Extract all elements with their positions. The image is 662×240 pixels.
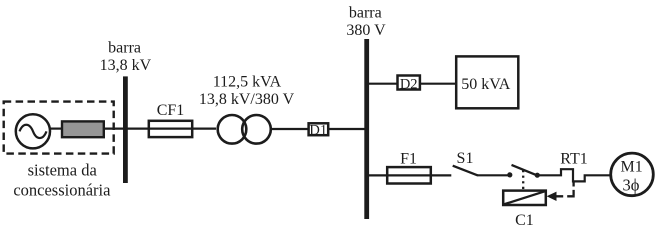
dashed trip link horizontal to arrow (556, 195, 575, 197)
svg-text:C1: C1 (515, 212, 534, 229)
svg-text:S1: S1 (457, 150, 474, 167)
wire: source circle to impedance (49, 128, 62, 130)
wire: bus 380V to D2 to 50kVA box (367, 83, 457, 85)
fuse F1 (387, 167, 431, 183)
junction node (left of contactor contact) (507, 172, 512, 177)
impedance rectangle (gray) (62, 121, 104, 137)
trip arrow head (points left into C1) (547, 192, 557, 201)
svg-text:barra: barra (349, 5, 382, 22)
motor M1 circle (611, 153, 654, 196)
AC source circle (16, 114, 50, 148)
wire: bus 13.8kV through fuse CF1 to transformer (126, 128, 216, 130)
svg-text:M1: M1 (620, 158, 642, 175)
svg-text:3ϕ: 3ϕ (623, 176, 640, 195)
svg-text:CF1: CF1 (157, 102, 185, 119)
coil diagonal (504, 191, 545, 204)
junction node (right of contactor contact) (535, 173, 540, 178)
svg-text:RT1: RT1 (560, 150, 587, 167)
sine wave (20, 125, 47, 138)
svg-text:concessionária: concessionária (13, 180, 111, 199)
svg-text:F1: F1 (400, 151, 417, 168)
svg-text:380 V: 380 V (346, 22, 386, 39)
svg-text:50 kVA: 50 kVA (461, 76, 510, 93)
svg-text:sistema da: sistema da (28, 161, 98, 180)
dashed trip link vertical from RT1 (572, 181, 574, 197)
switch S1 blade (453, 166, 478, 176)
transformer circle 1 (218, 115, 247, 144)
svg-text:D1: D1 (309, 122, 327, 138)
svg-text:barra: barra (108, 40, 141, 57)
svg-text:13,8 kV: 13,8 kV (100, 57, 152, 74)
wire: S1 to contactor contact (477, 174, 509, 176)
svg-text:112,5 kVA: 112,5 kVA (213, 74, 282, 91)
bus bar 380 V (364, 39, 369, 219)
contactor coil C1 box (503, 191, 546, 205)
dashed box: sistema da concessionária (4, 102, 114, 154)
load box 50 kVA (456, 56, 518, 108)
svg-text:D2: D2 (400, 76, 418, 92)
wire+thermal relay RT1 bump to motor (537, 169, 610, 181)
bus bar 13.8 kV (123, 76, 128, 183)
wire: bus 380V through fuse F1 (367, 174, 451, 176)
svg-text:13,8 kV/380 V: 13,8 kV/380 V (199, 91, 295, 108)
wire: impedance to bus 13.8kV (104, 128, 124, 130)
fuse CF1 (149, 121, 192, 137)
contactor C1 contact blade (512, 165, 537, 175)
dotted mechanical link to coil C1 (522, 170, 524, 190)
breaker D1 box (309, 123, 329, 135)
wire: transformer to D1 to bus 380V (272, 128, 367, 130)
breaker D2 box (398, 76, 420, 90)
transformer circle 2 (242, 115, 271, 144)
